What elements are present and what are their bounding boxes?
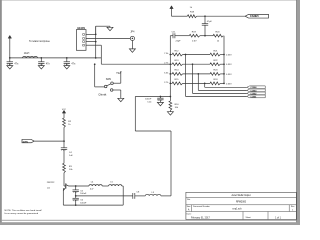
svg-text:10uH: 10uH xyxy=(24,53,30,55)
svg-text:100nF: 100nF xyxy=(145,98,152,100)
svg-text:COM1: COM1 xyxy=(250,96,257,98)
svg-text:47pF: 47pF xyxy=(207,21,213,23)
svg-text:NOTE: This oscillator was hand: NOTE: This oscillator was hand tuned! xyxy=(5,209,43,212)
svg-text:To relais incorporee: To relais incorporee xyxy=(29,40,51,43)
svg-text:0.35V: 0.35V xyxy=(226,74,232,76)
svg-text:100nF: 100nF xyxy=(80,202,87,204)
svg-text:2N2222: 2N2222 xyxy=(47,182,55,184)
svg-text:Its accuracy cannot be guarant: Its accuracy cannot be guaranteed xyxy=(5,212,39,215)
svg-text:exp1.sch: exp1.sch xyxy=(232,209,242,211)
svg-text:0.35V: 0.35V xyxy=(226,83,232,85)
svg-text:February 01, 2017: February 01, 2017 xyxy=(191,216,210,219)
svg-text:SW9: SW9 xyxy=(106,78,112,81)
svg-text:Sheet: Sheet xyxy=(246,216,252,219)
svg-text:100nF: 100nF xyxy=(80,193,87,195)
svg-text:CANH5: CANH5 xyxy=(250,15,259,18)
svg-text:5VIN: 5VIN xyxy=(23,141,28,143)
svg-text:0.6V: 0.6V xyxy=(192,41,197,43)
svg-text:Chimik: Chimik xyxy=(98,93,107,97)
svg-text:22pF: 22pF xyxy=(176,41,182,43)
svg-text:COM2: COM2 xyxy=(250,93,257,95)
svg-text:COM4: COM4 xyxy=(250,86,257,89)
svg-text:Rev: Rev xyxy=(291,206,295,208)
svg-text:1 of 1: 1 of 1 xyxy=(275,217,281,219)
svg-text:1uF: 1uF xyxy=(69,155,73,157)
svg-text:Date:: Date: xyxy=(187,213,192,216)
svg-text:0.35V: 0.35V xyxy=(226,54,232,56)
svg-text:COM3: COM3 xyxy=(250,90,257,92)
svg-text:Aurel Wells Output: Aurel Wells Output xyxy=(231,194,250,197)
svg-text:RFM2000: RFM2000 xyxy=(236,202,247,204)
svg-text:Document Number: Document Number xyxy=(193,205,210,208)
svg-text:HE10S: HE10S xyxy=(77,27,85,30)
svg-text:0.35V: 0.35V xyxy=(226,64,232,66)
svg-text:TS2: TS2 xyxy=(116,73,121,75)
